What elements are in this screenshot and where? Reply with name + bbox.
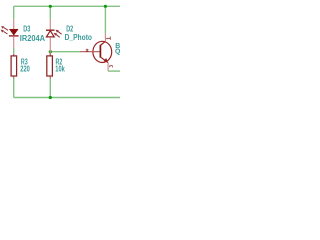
D2 incident arrow lower <box>56 34 60 37</box>
LED D3 <box>1 19 19 47</box>
R3 body <box>11 56 17 76</box>
Q1 emitter diagonal with arrow <box>101 57 108 62</box>
junction top right <box>104 5 107 8</box>
pin number 1 <box>106 37 110 40</box>
pin top of D3 <box>13 19 15 29</box>
junction base node <box>49 50 52 53</box>
wire left column upper <box>13 6 15 19</box>
svg-text:D_Photo: D_Photo <box>65 33 93 42</box>
svg-text:10k: 10k <box>55 64 65 73</box>
pin 1 collector lead <box>104 33 106 41</box>
svg-text:IR204A: IR204A <box>20 34 45 43</box>
D2 triangle outline <box>46 31 54 37</box>
pin 2 base lead <box>80 51 100 53</box>
pin top of R2 <box>49 53 51 56</box>
transistor Q1 <box>80 33 113 71</box>
pin 3 emitter lead <box>107 63 109 72</box>
D2 incident arrow upper <box>58 31 62 34</box>
pin bottom of D3 <box>13 36 15 47</box>
Q1 body circle <box>93 41 112 62</box>
pin bottom of D2 <box>49 37 51 56</box>
junction bottom middle <box>49 96 52 99</box>
Q1 base bar <box>99 45 101 58</box>
svg-text:220: 220 <box>20 64 30 73</box>
pin number 2 <box>86 49 89 51</box>
junction top middle <box>49 5 52 8</box>
wire right column upper <box>104 6 106 33</box>
D2 cathode bar <box>46 29 55 31</box>
pin top of R3 <box>13 54 15 56</box>
svg-text:D3: D3 <box>23 25 31 34</box>
pin bottom of R3 <box>13 76 15 78</box>
R2 body <box>47 56 53 76</box>
pin top of D2 <box>49 19 51 30</box>
wire emitter to right edge <box>108 70 120 72</box>
D3 emission arrow lower <box>4 31 8 34</box>
resistor R2 <box>47 53 53 78</box>
wire middle column lower <box>49 78 51 97</box>
D3 cathode bar <box>9 35 19 37</box>
D3 triangle <box>9 29 18 35</box>
wire base of Q <box>50 51 80 53</box>
wire left column middle <box>13 48 15 54</box>
wire bottom rail <box>14 97 120 99</box>
D3 emission arrow upper <box>4 28 8 31</box>
wire middle column upper <box>49 6 51 19</box>
pin number 3 <box>109 65 112 67</box>
pin bottom of R2 <box>49 76 51 78</box>
wire left column lower <box>13 78 15 98</box>
resistor R3 <box>11 54 17 78</box>
svg-text:Q1: Q1 <box>115 49 120 56</box>
photodiode D2 <box>46 19 62 56</box>
wire top rail <box>14 5 120 7</box>
Q1 collector diagonal <box>101 41 106 45</box>
